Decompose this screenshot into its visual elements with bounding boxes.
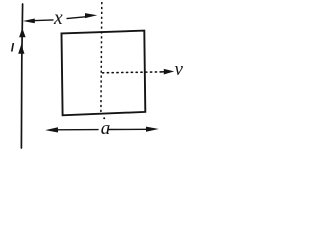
svg-text:v: v	[175, 59, 184, 80]
current I arrowhead 1	[19, 28, 26, 37]
square loop (side a)	[62, 31, 146, 116]
svg-text:x: x	[53, 8, 63, 29]
centre dashed line (axis of square loop)	[101, 2, 105, 119]
wire (long straight current-carrying conductor)	[21, 4, 22, 148]
dimension arrow a (bottom, loop width)	[45, 127, 159, 133]
current I arrowhead 2	[18, 44, 24, 54]
label v (velocity)	[175, 59, 184, 80]
label x (distance)	[53, 8, 63, 29]
dimension arrow x (wire to centre line)	[23, 13, 98, 23]
svg-text:a: a	[101, 118, 111, 139]
label I (current)	[11, 43, 15, 55]
velocity arrow v (dotted, to the right)	[103, 69, 175, 75]
label a (side length)	[101, 118, 111, 139]
